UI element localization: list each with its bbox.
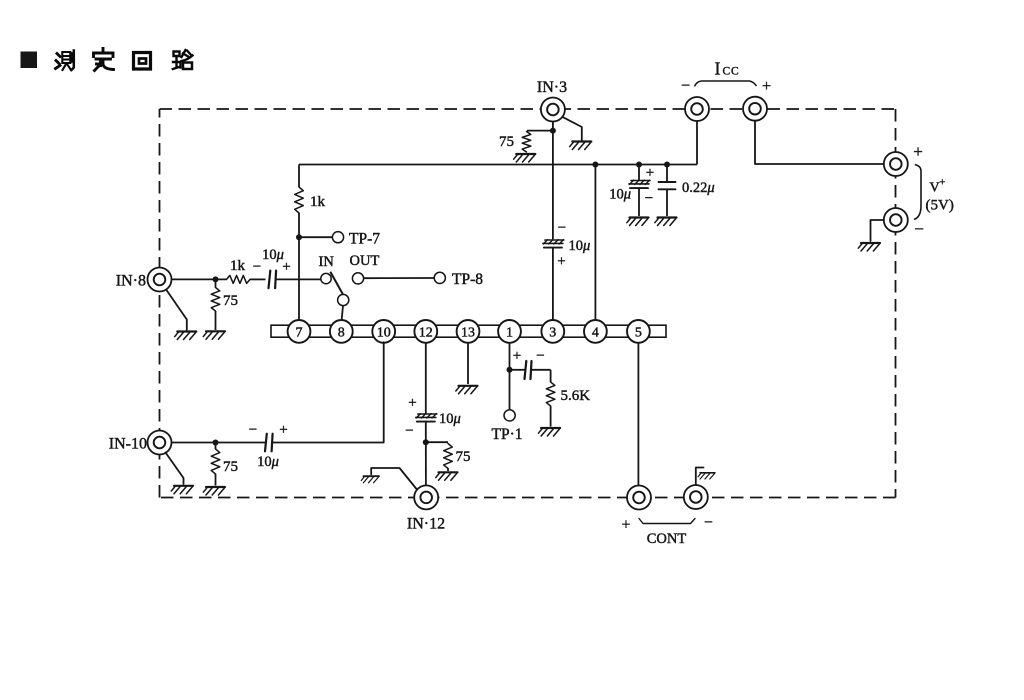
wire pin4 vertical xyxy=(594,165,596,321)
wire IN-10 shield to ground xyxy=(166,453,184,485)
svg-text:IN·3: IN·3 xyxy=(537,79,567,96)
svg-text:0.22μ: 0.22μ xyxy=(682,180,715,196)
ground 0.22μ xyxy=(655,218,677,226)
capacitor 10μ (pin3 series) xyxy=(543,220,590,270)
svg-text:−: − xyxy=(704,514,713,531)
svg-text:10μ: 10μ xyxy=(257,454,279,470)
pin 7 xyxy=(288,320,311,343)
node junction IN-10/75 xyxy=(213,440,219,446)
svg-text:IN·8: IN·8 xyxy=(116,273,146,290)
svg-text:+: + xyxy=(557,254,565,270)
IC body bar xyxy=(271,325,666,337)
svg-text:V: V xyxy=(930,181,940,196)
dashed measurement-box border xyxy=(160,109,896,498)
ground 75-pin12 xyxy=(436,472,458,480)
resistor 75 (pin12 term) xyxy=(426,442,471,471)
svg-text:OUT: OUT xyxy=(350,253,380,269)
svg-text:4: 4 xyxy=(592,326,599,341)
resistor 75 (input 3) xyxy=(499,131,553,152)
pin 10 xyxy=(372,320,395,343)
wire Icc- vertical xyxy=(696,121,698,165)
svg-text:+: + xyxy=(408,395,416,411)
test point TP-1 xyxy=(492,370,523,443)
ground 10μ-decoupling xyxy=(627,218,649,226)
wire IN-3 shield to ground xyxy=(562,117,582,140)
switch terminal IN xyxy=(319,254,335,284)
ground 5.6K xyxy=(538,428,560,436)
wire IN-10 to cap xyxy=(172,442,266,444)
resistor 75 (input 10 term) xyxy=(211,443,238,486)
ground IN-12 shield xyxy=(361,476,379,483)
pin 1 xyxy=(498,320,521,343)
svg-text:13: 13 xyxy=(461,326,475,341)
wire pole to pin8 xyxy=(342,306,343,321)
svg-text:12: 12 xyxy=(419,326,433,341)
node IN-3 junction xyxy=(550,128,556,134)
capacitor 10μ (pin12) xyxy=(405,395,461,439)
svg-text:−: − xyxy=(914,220,924,239)
pin 5 xyxy=(627,320,650,343)
connector IN-3 xyxy=(537,79,567,122)
svg-text:CC: CC xyxy=(723,66,740,78)
svg-text:75: 75 xyxy=(223,459,238,475)
switch lever xyxy=(330,272,344,296)
node pin12/75 junction xyxy=(423,439,429,445)
pin 3 xyxy=(541,320,564,343)
svg-text:7: 7 xyxy=(296,326,303,341)
wire IN-12 shield to ground xyxy=(371,468,416,489)
resistor 1k (pin7 pull-up) xyxy=(295,187,326,213)
svg-text:1k: 1k xyxy=(310,194,326,210)
pin 8 xyxy=(330,320,353,343)
wire Icc+ to V+ xyxy=(755,121,884,165)
svg-text:IN: IN xyxy=(319,254,335,270)
wire IN-8 to 1k xyxy=(172,278,227,280)
connector CONT minus xyxy=(684,485,708,509)
wire CONT- to ground xyxy=(696,468,704,485)
wire pin13 to ground xyxy=(467,342,469,384)
wire IN-3 / pin3 vertical upper xyxy=(552,122,554,240)
svg-text:10μ: 10μ xyxy=(439,411,461,427)
title bullet square xyxy=(21,52,38,69)
wire capacitor to switch IN xyxy=(276,278,321,280)
connector Icc minus xyxy=(685,97,709,121)
svg-text:TP·1: TP·1 xyxy=(492,426,523,443)
wire pin12 down xyxy=(425,342,427,413)
svg-text:10μ: 10μ xyxy=(569,238,591,254)
switch pole xyxy=(338,294,349,305)
wire cap to pin10 xyxy=(273,342,384,442)
wire V- to ground xyxy=(871,220,884,241)
resistor 75 (input 8 term) xyxy=(211,279,238,330)
title text 測定回路 (drawn strokes) xyxy=(56,49,193,71)
capacitor 10μ (supply decoupling) xyxy=(609,162,654,217)
svg-text:−: − xyxy=(249,422,257,438)
svg-text:10μ: 10μ xyxy=(609,187,631,203)
svg-text:1: 1 xyxy=(506,326,513,341)
wire IN-8 shield to ground xyxy=(167,291,187,331)
svg-text:TP-8: TP-8 xyxy=(452,271,483,288)
svg-text:(5V): (5V) xyxy=(926,198,954,214)
label CONT with brace xyxy=(622,514,713,547)
wire pin3 vertical lower xyxy=(552,247,554,321)
ground CONT- xyxy=(698,473,715,479)
pin 13 xyxy=(457,320,480,343)
ground IN-8 shield xyxy=(175,332,197,340)
wire pin5 to CONT+ xyxy=(637,342,639,485)
svg-text:IN-10: IN-10 xyxy=(109,436,147,453)
ground V- xyxy=(858,243,880,251)
svg-text:−: − xyxy=(405,423,413,439)
wire pin7 vertical xyxy=(298,213,300,321)
switch terminal OUT xyxy=(350,253,380,284)
svg-text:75: 75 xyxy=(456,449,471,465)
connector V plus xyxy=(884,152,908,176)
svg-text:+: + xyxy=(940,178,946,189)
wire 1k to capacitor xyxy=(250,278,266,280)
connector V minus xyxy=(884,208,908,232)
wire pin1 down xyxy=(509,342,511,370)
connector IN-8 xyxy=(116,268,172,292)
connector Icc plus xyxy=(743,97,767,121)
svg-text:3: 3 xyxy=(549,326,556,341)
svg-text:CONT: CONT xyxy=(647,531,687,547)
svg-text:−: − xyxy=(681,78,690,95)
connector IN-10 xyxy=(109,431,172,455)
svg-text:5: 5 xyxy=(635,326,642,341)
node junction IN-8/75 xyxy=(213,276,219,282)
svg-text:−: − xyxy=(536,348,544,364)
resistor 5.6K xyxy=(546,370,590,427)
svg-text:+: + xyxy=(279,422,287,438)
ground pin13 xyxy=(456,386,478,394)
connector IN-12 xyxy=(407,485,445,532)
svg-text:75: 75 xyxy=(223,293,238,309)
svg-text:10μ: 10μ xyxy=(262,247,284,263)
svg-text:75: 75 xyxy=(499,134,514,150)
svg-text:IN·12: IN·12 xyxy=(407,516,445,533)
resistor 1k (series input 8) xyxy=(227,258,251,283)
pin 4 xyxy=(584,320,607,343)
node TP-7 junction xyxy=(296,234,302,240)
svg-text:−: − xyxy=(558,220,566,236)
label Icc with brace xyxy=(681,59,771,96)
svg-text:+: + xyxy=(513,348,521,364)
pin 12 xyxy=(414,320,437,343)
wire rail corner down to 1k xyxy=(298,165,300,188)
ground IN-10 shield xyxy=(171,486,193,494)
svg-text:+: + xyxy=(762,78,771,95)
svg-text:+: + xyxy=(913,142,923,161)
wire top rail y165 xyxy=(299,164,697,166)
label V+(5V) with bracket xyxy=(913,142,954,239)
test point TP-7 xyxy=(299,231,380,248)
ground 75-in8 xyxy=(203,331,225,339)
wire OUT to TP-8 xyxy=(364,277,434,279)
svg-text:+: + xyxy=(646,165,654,181)
svg-text:5.6K: 5.6K xyxy=(561,388,591,404)
ground IN-3 shield xyxy=(570,142,592,150)
capacitor 10μ (input 10) xyxy=(249,422,288,470)
connector CONT plus xyxy=(627,486,651,510)
ground 75-in3 xyxy=(514,154,536,162)
svg-text:I: I xyxy=(715,59,721,79)
test point TP-8 xyxy=(434,271,483,288)
node pin4/rail xyxy=(592,162,598,168)
capacitor 10μ (input 8) xyxy=(253,247,291,288)
svg-text:10: 10 xyxy=(377,326,391,341)
svg-text:1k: 1k xyxy=(230,258,246,274)
capacitor (pin1 series) xyxy=(510,348,551,379)
svg-text:8: 8 xyxy=(338,326,345,341)
svg-text:TP-7: TP-7 xyxy=(349,231,380,248)
node pin1 junction xyxy=(507,367,513,373)
svg-text:−: − xyxy=(645,191,653,207)
svg-text:+: + xyxy=(622,517,631,534)
ground 75-in10 xyxy=(203,487,225,495)
capacitor 0.22μ (supply decoupling) xyxy=(659,162,715,217)
wire cap to IN-12 xyxy=(425,421,427,486)
svg-text:−: − xyxy=(253,259,261,275)
